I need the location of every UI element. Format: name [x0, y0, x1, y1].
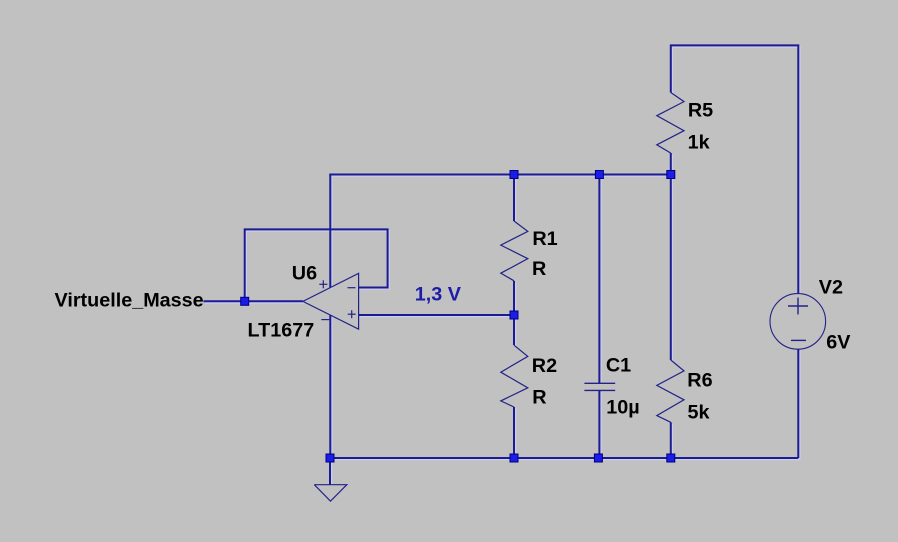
svg-text:C1: C1 [606, 354, 631, 376]
svg-text:R6: R6 [687, 370, 712, 392]
svg-text:R1: R1 [532, 228, 557, 250]
svg-text:U6: U6 [292, 262, 317, 284]
svg-text:R: R [532, 386, 546, 408]
svg-text:R5: R5 [688, 100, 713, 122]
svg-text:V2: V2 [819, 277, 843, 299]
svg-text:Virtuelle_Masse: Virtuelle_Masse [55, 290, 204, 312]
svg-text:6V: 6V [826, 331, 851, 353]
svg-text:1k: 1k [688, 131, 711, 153]
svg-text:5k: 5k [688, 402, 711, 424]
svg-text:R: R [532, 258, 546, 280]
svg-text:R2: R2 [532, 355, 557, 377]
svg-text:10µ: 10µ [606, 396, 639, 418]
svg-text:1,3 V: 1,3 V [415, 284, 462, 306]
svg-text:LT1677: LT1677 [248, 319, 315, 341]
